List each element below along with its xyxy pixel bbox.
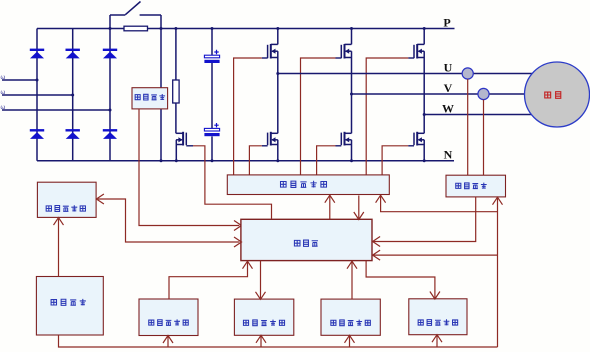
wire cap leg a [211,29,213,56]
wire analog-input to controller [351,262,353,299]
resistor R2 (brake) [173,80,179,103]
arrow power into box at x=168 [163,336,173,344]
label 电压检测 [135,94,165,100]
node AC-1 junction [36,79,39,82]
wire Q3 source to output [423,51,425,114]
diode D4 (lower) [30,129,44,131]
block switch-input 开关量输入 [139,299,198,336]
current sensor CT1 on U [462,68,473,79]
wire Q4 source to N [277,140,279,161]
arrow into controller bottom (analog-input) [347,261,357,269]
node AC-3 junction [109,109,112,112]
diode D1 (upper) [30,49,44,51]
arrow into controller bottom (switch-input) [243,261,253,269]
wire power riser [497,198,499,347]
wire Q5 source to N [351,140,353,161]
wire Q5 gate drive [317,146,336,176]
wire Q7 gate to controller [193,146,272,219]
arrow into controller (from alarm) [234,237,242,247]
arrow into alarm bottom (power) [54,218,64,226]
arrow into controller right (current) [373,237,381,247]
arrow into controller (from voltage detect) [234,221,242,231]
block switching-psu 开关电源 [36,277,103,336]
wire Q1 gate drive [234,58,262,176]
svg-text:V: V [444,81,453,95]
transistor Q2 (upper) [344,44,346,59]
resistor R1 (soft start) [124,26,148,31]
diode D3 (upper) [103,49,117,51]
arrow into alarm (from controller) [96,194,104,204]
wire AC input line 1 [2,79,37,81]
wire power drop x=437 [436,336,438,347]
node AC-2 junction [71,94,74,97]
wire alarm-controller link [98,199,240,242]
wire power branch to drive [381,196,498,211]
diode D2 (upper) [66,49,80,51]
wire bridge leg 1 [36,29,38,161]
wire brake mid [175,103,177,133]
transistor Q3 (upper) [416,44,418,59]
arrow power into box at x=349.5 [345,335,355,343]
label 开关电源 [51,299,86,306]
node leg2-output junction [350,93,353,96]
wire N rail (DC bus -) [37,160,454,162]
wire leg3 drain to P [423,29,425,45]
block drive-protect 驱动和保护 [227,175,389,195]
arrow into current-detect bottom (power) [493,197,503,205]
wire brake top [175,29,177,81]
wire voltage-detect to controller [139,109,239,226]
label 驱动和保护 [281,181,327,188]
wire cap leg c [211,136,213,160]
wire Q7 gate stub [186,145,193,147]
node bypass-right junction [160,27,163,30]
wire controller to analog-output [366,261,435,298]
switch S1 blade [125,2,140,15]
wire bypass top right [140,14,161,16]
node leg3-N junction [423,159,426,162]
wire Q1 gate stub [262,57,268,59]
arrow into switch-output top [256,292,266,300]
block analog-input 模拟量输入 [321,299,380,335]
wire bridge leg 3 [109,29,111,161]
wire leg2 drain to P [351,29,353,45]
block alarm-display 报警及显示 [37,182,96,217]
svg-text:ω: ω [1,90,6,96]
transistor Q1 (upper) [270,44,272,59]
node leg3-P junction [423,27,426,30]
transistor Q6 (lower) [416,132,418,146]
wire Q4 gate drive [249,146,261,176]
node Q7-N junction [175,159,178,162]
svg-text:U: U [444,61,453,75]
node leg1-N junction [276,159,279,162]
wire bypass left riser [109,15,111,29]
current sensor CT2 on V [478,88,489,99]
wire bypass right riser [160,15,162,29]
wire controller to drive [329,196,331,219]
wire bus sense lower [160,109,162,161]
wire leg3 lower drain [423,115,425,134]
arrow into controller top (from drive) [354,212,364,220]
transistor Q4 (lower) [270,132,272,146]
wire leg1 drain to P [277,29,279,45]
block voltage-detect 电压检测 [132,88,168,109]
wire leg2 lower drain [351,94,353,133]
wire AC input line 2 [2,94,73,96]
wire current-detect to controller [374,197,476,242]
node cap-P junction [211,27,214,30]
svg-text:N: N [444,148,453,162]
wire Q1 source to output [277,51,279,73]
wire Q7 source to N [175,140,177,161]
wire Q6 gate drive [382,146,408,176]
wire Q4 gate stub [262,145,268,147]
wire Q5 gate stub [336,145,342,147]
node leg2-N junction [350,159,353,162]
wire Q3 gate drive [366,58,408,176]
diode D6 (lower) [103,129,117,131]
svg-text:P: P [443,16,450,30]
label 开关量输入 [149,319,189,325]
arrow power into box at x=437 [432,335,442,343]
transistor Q7 (brake, mirrored) [182,132,184,146]
node cap-N junction [211,159,214,162]
block current-detect 电流检测 [446,175,506,197]
node bypass-left junction [109,27,112,30]
wire CT2 to current-detect [483,100,485,176]
wire power drop x=349.5 [349,336,351,347]
capacitor C1 [204,55,219,58]
node sense-N junction [160,159,163,162]
label 模拟量输入 [331,320,371,326]
wire Q2 gate drive [301,58,336,176]
diode D5 (lower) [66,129,80,131]
wire leg1 lower drain [277,74,279,134]
wire bridge leg 2 [72,29,74,161]
wire CT1 to current-detect [467,79,469,175]
label 电机 [545,92,561,99]
node leg2-P junction [350,27,353,30]
svg-text:ω: ω [1,75,6,81]
wire V line [352,93,557,95]
wire power branch to controller [374,254,498,256]
label 控制器 [294,240,318,247]
wire power drop x=168 [167,337,169,348]
arrow power into box at x=261 [256,335,266,343]
arrow into controller right (power) [373,250,381,260]
node leg3-output junction [423,113,426,116]
wire U line [278,73,556,75]
arrow into drive bottom (power) [376,195,386,203]
wire bus sense upper [160,29,162,88]
label 开关量输出 [243,320,284,326]
node leg1-P junction [276,27,279,30]
block controller 控制器 [241,219,372,260]
label 电流检测 [456,183,487,189]
transistor Q5 (lower) [344,132,346,146]
arrow into drive bottom (from controller) [325,195,335,203]
node brake-P junction [174,27,177,30]
wire P rail (DC bus +) [37,28,455,30]
wire switch-input to controller [169,262,248,299]
wire Q3 gate stub [408,57,414,59]
wire psu to alarm [58,219,60,277]
label 模拟量输出 [418,319,458,325]
label 报警及显示 [46,205,85,211]
wire drive to controller [358,196,360,219]
wire W line [424,114,556,116]
wire Q2 source to output [351,51,353,94]
svg-text:ω: ω [1,105,6,111]
wire controller to switch-output [260,261,262,298]
wire AC input line 3 [2,109,110,111]
wire power drop x=261 [260,336,262,347]
block switch-output 开关量输出 [234,299,293,335]
capacitor C2 [204,128,219,131]
wire power rail bottom [59,335,498,347]
motor M 电机 [525,62,590,127]
svg-text:W: W [442,102,454,116]
block analog-output 模拟量输出 [409,299,467,335]
wire Q6 gate stub [408,145,414,147]
wire Q6 source to N [423,140,425,161]
arrow into analog-output top [430,292,440,300]
wire cap leg b [211,63,213,128]
wire Q2 gate stub [336,57,342,59]
wire bypass top left [110,14,125,16]
node leg1-output junction [276,72,279,75]
